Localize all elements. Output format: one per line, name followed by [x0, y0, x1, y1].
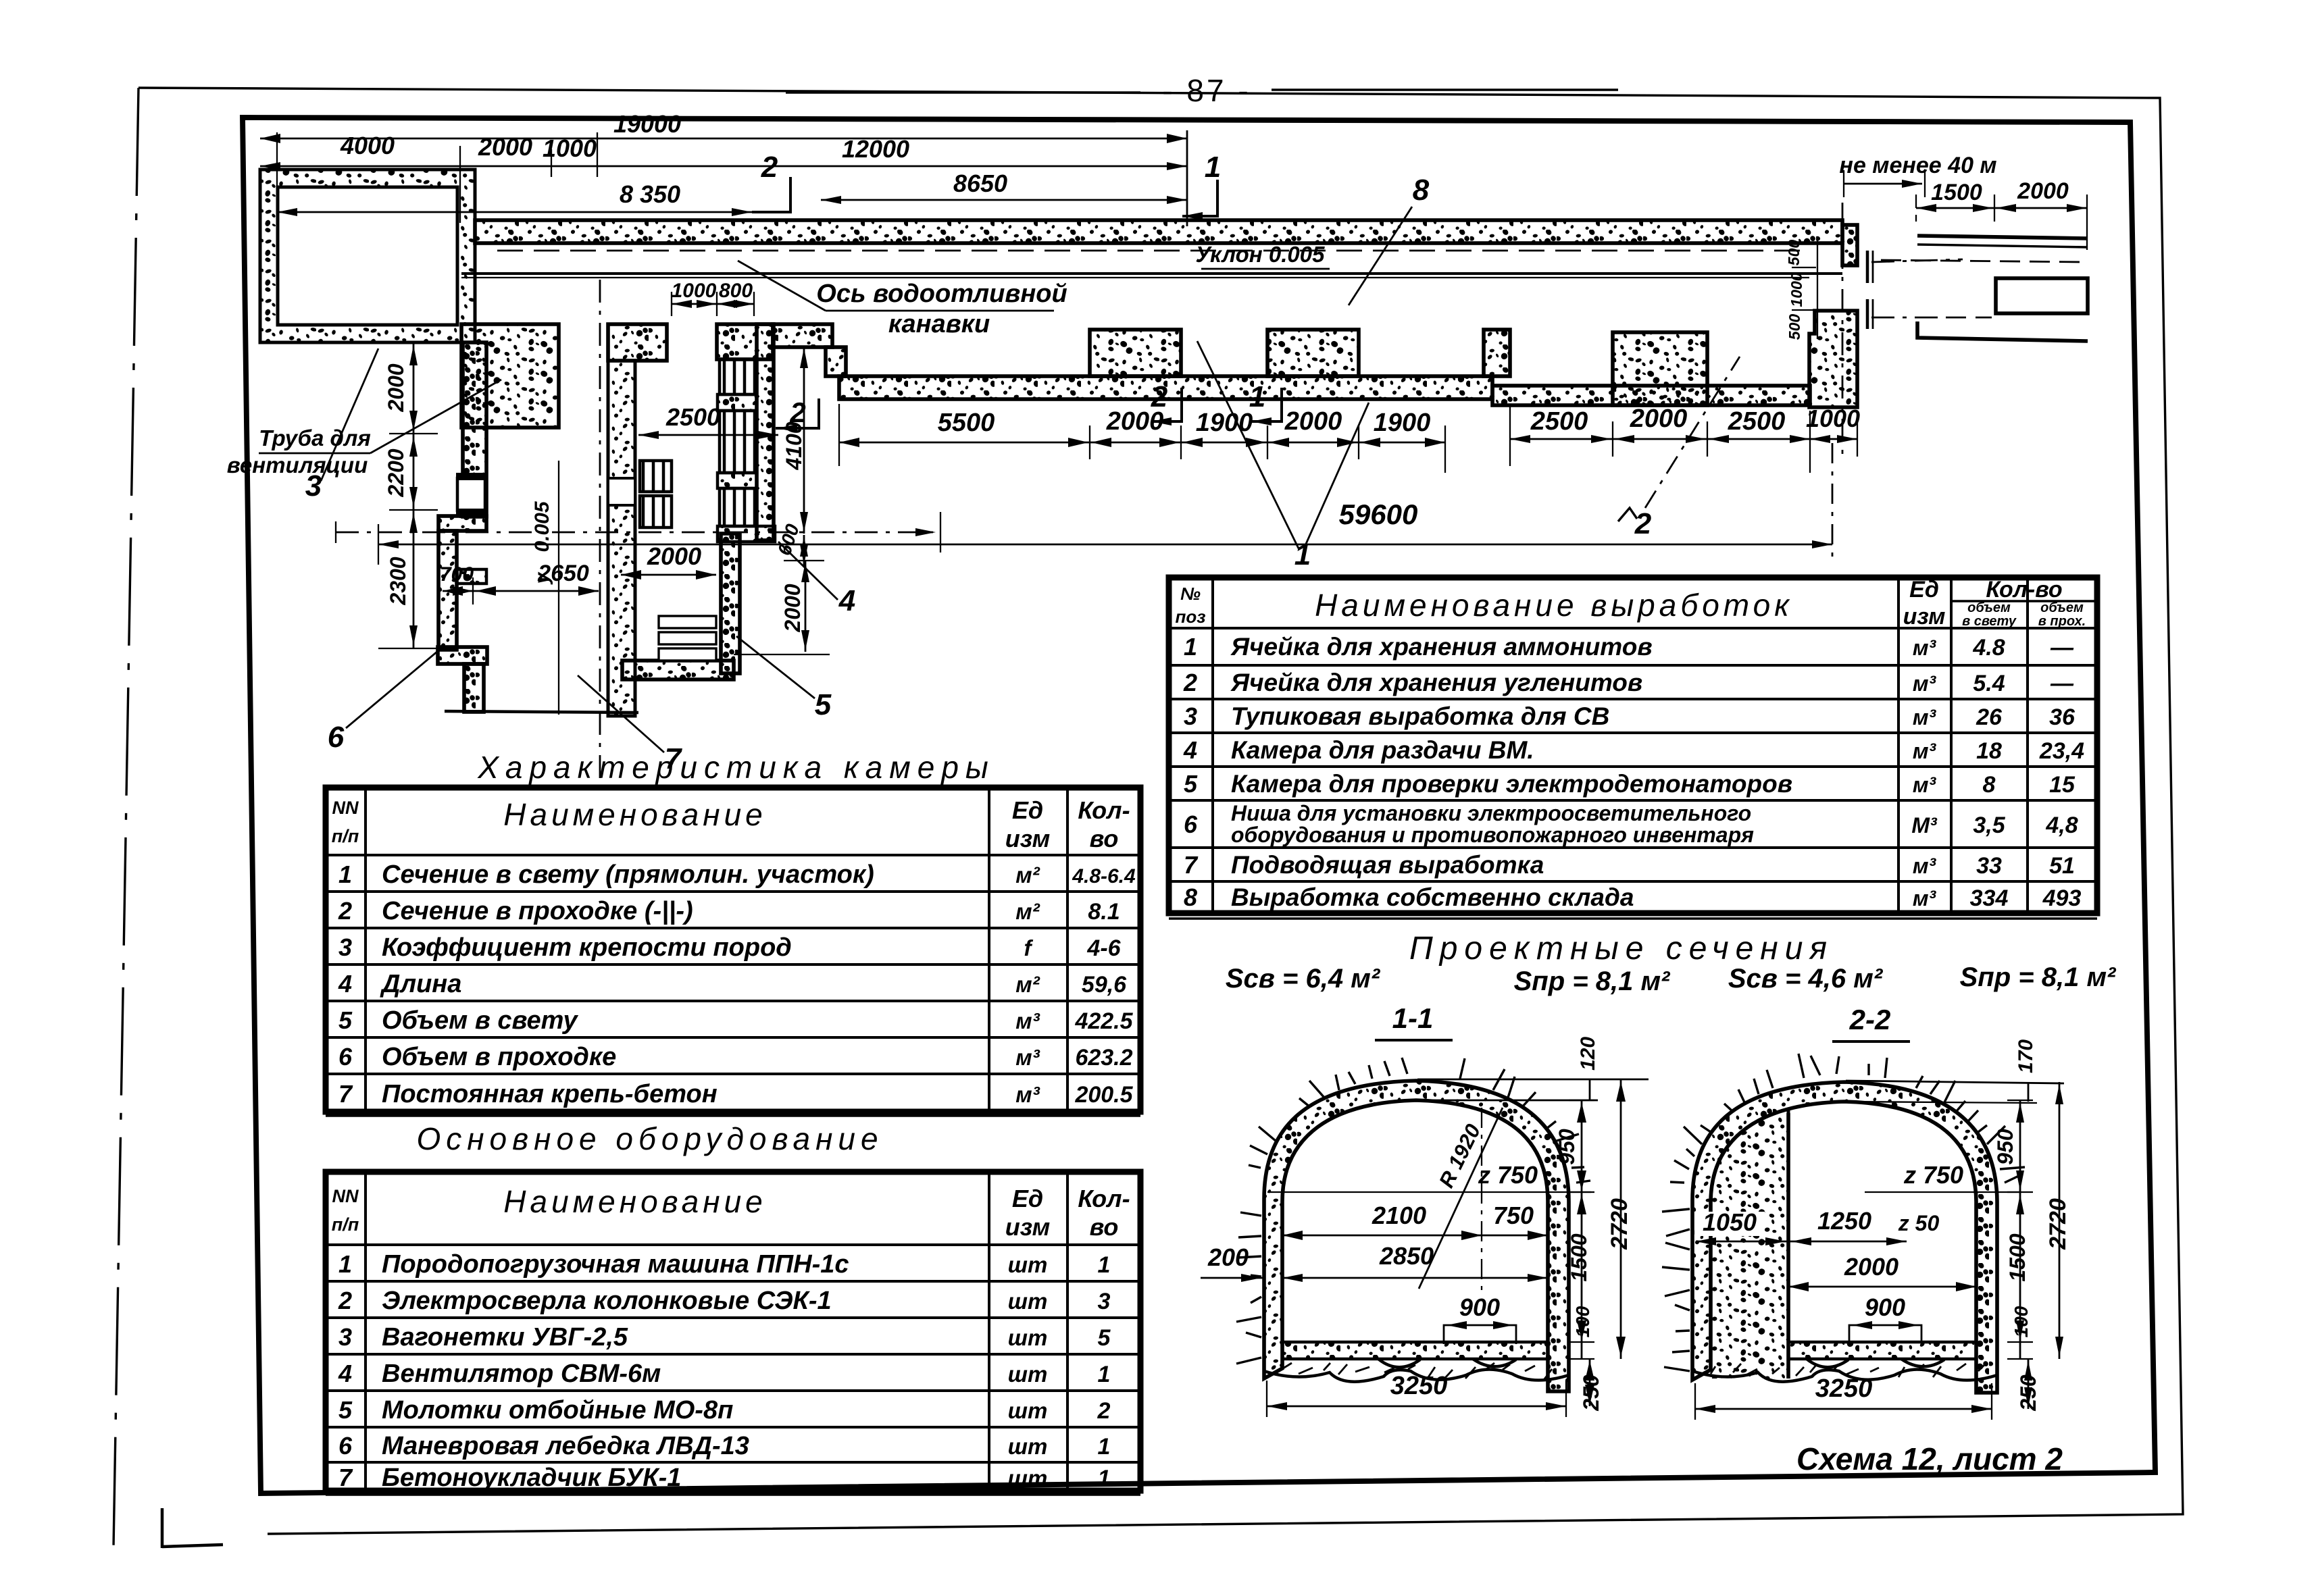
section 1-1 dim 900 bracket: [1444, 1325, 1516, 1344]
svg-text:z 750: z 750: [1903, 1161, 1963, 1189]
svg-text:м³: м³: [1015, 1008, 1040, 1033]
svg-text:33: 33: [1976, 853, 2002, 879]
svg-text:изм: изм: [1903, 604, 1946, 629]
svg-text:канавки: канавки: [888, 310, 990, 338]
svg-text:1500: 1500: [1567, 1233, 1591, 1281]
svg-text:Ед: Ед: [1012, 796, 1043, 824]
top dims 1000 800 drift opening: [672, 303, 717, 305]
svg-text:шт: шт: [1008, 1434, 1048, 1459]
svg-text:2850: 2850: [1379, 1242, 1434, 1270]
svg-text:4,8: 4,8: [2045, 813, 2078, 838]
svg-text:2000: 2000: [1106, 407, 1164, 436]
svg-text:7: 7: [338, 1080, 353, 1108]
svg-text:4000: 4000: [340, 132, 395, 159]
svg-text:м³: м³: [1913, 739, 1937, 763]
svg-text:Бетоноукладчик БУК-1: Бетоноукладчик БУК-1: [382, 1464, 681, 1492]
svg-text:4: 4: [338, 1360, 352, 1387]
svg-text:18: 18: [1976, 738, 2002, 764]
svg-text:Проектные сечения: Проектные сечения: [1409, 931, 1834, 967]
left wall small block 700: [457, 569, 486, 584]
svg-text:2650: 2650: [537, 561, 589, 586]
svg-text:4.8: 4.8: [1972, 635, 2005, 661]
svg-text:z 50: z 50: [1898, 1211, 1940, 1235]
svg-text:Кол-: Кол-: [1078, 796, 1130, 824]
svg-text:1: 1: [1184, 633, 1197, 661]
svg-text:п/п: п/п: [332, 826, 359, 846]
svg-text:п/п: п/п: [332, 1214, 359, 1235]
svg-text:Уклон 0.005: Уклон 0.005: [1195, 242, 1325, 267]
svg-text:шт: шт: [1008, 1362, 1048, 1387]
svg-text:Ед: Ед: [1012, 1185, 1043, 1212]
svg-text:Сечение в свету (прямолин. у: Сечение в свету (прямолин. участок): [382, 860, 874, 889]
table 2 grid: [326, 1243, 1140, 1246]
canal solid line 2: [461, 277, 1809, 278]
svg-text:Молотки отбойные МО-8п: Молотки отбойные МО-8п: [382, 1396, 733, 1424]
dimension row 4000 2000 1000 12000: [260, 165, 1187, 168]
svg-text:2-2: 2-2: [1849, 1004, 1891, 1035]
svg-text:- 87 -: - 87 -: [1162, 73, 1251, 108]
svg-text:200.5: 200.5: [1074, 1082, 1133, 1108]
svg-text:Подводящая выработка: Подводящая выработка: [1231, 851, 1544, 879]
svg-text:900: 900: [1865, 1293, 1905, 1321]
svg-text:500: 500: [1785, 240, 1803, 266]
svg-text:м³: м³: [1913, 636, 1937, 660]
svg-text:Схема 12, лист 2: Схема 12, лист 2: [1796, 1441, 2063, 1476]
svg-text:Кол-: Кол-: [1078, 1185, 1130, 1212]
svg-text:5: 5: [338, 1006, 353, 1034]
svg-text:422.5: 422.5: [1074, 1008, 1133, 1034]
svg-text:6: 6: [338, 1432, 353, 1460]
drift bottom cut line: [445, 711, 638, 713]
cell pillar block 2000 right section: [1613, 332, 1707, 405]
svg-text:12000: 12000: [842, 135, 909, 163]
south wall band right section lower level: [1492, 386, 1810, 405]
ladder inside drift upper: [640, 461, 672, 492]
svg-text:1: 1: [1098, 1252, 1111, 1278]
svg-text:Маневровая лебедка ЛВД-13: Маневровая лебедка ЛВД-13: [382, 1432, 749, 1460]
svg-text:6: 6: [338, 1043, 353, 1071]
dimension 19000: [260, 138, 1187, 140]
svg-text:Ниша для установки электро: Ниша для установки электроосветительного: [1231, 801, 1751, 825]
svg-text:1-1: 1-1: [1392, 1002, 1434, 1034]
detail inner box: [1996, 278, 2088, 313]
svg-text:1000: 1000: [1788, 272, 1805, 307]
svg-text:900: 900: [1459, 1293, 1500, 1321]
svg-text:не менее 40 м: не менее 40 м: [1839, 153, 1996, 178]
svg-text:5500: 5500: [938, 409, 995, 437]
section 2-2 dim 2000: [1788, 1286, 1976, 1288]
detail dim 1500 2000: [1916, 207, 2087, 209]
svg-text:2300: 2300: [386, 557, 410, 605]
wall stub right of drift opening: [717, 324, 773, 359]
svg-text:1050: 1050: [1703, 1208, 1757, 1236]
table 1 grid: [326, 854, 1140, 856]
svg-text:0.005: 0.005: [531, 500, 553, 552]
svg-text:поз: поз: [1175, 607, 1205, 627]
svg-text:2000: 2000: [1630, 405, 1688, 433]
svg-text:8 350: 8 350: [620, 180, 680, 208]
svg-text:1: 1: [1098, 1362, 1111, 1387]
svg-text:3: 3: [1184, 702, 1197, 730]
page number 87 rule right: [1272, 88, 1618, 91]
svg-text:2000: 2000: [478, 133, 532, 161]
section 1-1 under-floor ground waves: [1264, 1369, 1569, 1381]
svg-text:6: 6: [1184, 810, 1198, 838]
section 1-1 top level line 120: [1417, 1079, 1649, 1081]
svg-text:Sсв = 6,4 м²: Sсв = 6,4 м²: [1226, 964, 1381, 994]
svg-text:23,4: 23,4: [2039, 738, 2084, 764]
svg-text:2500: 2500: [1530, 407, 1588, 436]
section 2-2 right dim stack: [2019, 1100, 2021, 1359]
svg-text:2000: 2000: [780, 584, 805, 632]
svg-text:шт: шт: [1008, 1466, 1048, 1491]
svg-text:—: —: [2050, 671, 2074, 696]
svg-text:1: 1: [1205, 151, 1221, 184]
chamber 3 walls (plan top-left room): [260, 170, 475, 342]
svg-text:оборудования и противопожарн: оборудования и противопожарного инвентар…: [1231, 823, 1754, 847]
svg-text:Sсв = 4,6 м²: Sсв = 4,6 м²: [1728, 964, 1884, 994]
section 1-1 dim 2100 750: [1282, 1235, 1482, 1237]
svg-text:м³: м³: [1015, 1082, 1040, 1107]
svg-text:5.4: 5.4: [1973, 671, 2005, 696]
svg-text:2: 2: [1097, 1398, 1111, 1424]
svg-text:2000: 2000: [384, 363, 408, 412]
svg-text:15: 15: [2049, 772, 2076, 798]
svg-text:Ячейка для хранения аммонит: Ячейка для хранения аммонитов: [1230, 633, 1653, 661]
detail top wall line: [1917, 236, 2088, 238]
svg-text:59600: 59600: [1339, 498, 1418, 530]
section 1-1 radius R1920: [1419, 1108, 1503, 1289]
drift right wall strip: [757, 324, 774, 540]
svg-text:1250: 1250: [1817, 1207, 1871, 1235]
section 1-1 dim 3250: [1267, 1406, 1566, 1408]
svg-text:м³: м³: [1913, 705, 1937, 729]
svg-text:Породопогрузочная машина ПП: Породопогрузочная машина ППН-1с: [382, 1250, 849, 1279]
svg-text:М³: М³: [1911, 813, 1938, 838]
svg-text:Ед: Ед: [1909, 577, 1939, 602]
svg-text:2720: 2720: [2045, 1198, 2071, 1250]
svg-text:623.2: 623.2: [1075, 1045, 1132, 1071]
svg-text:170: 170: [2015, 1039, 2037, 1073]
svg-text:950: 950: [1993, 1129, 2017, 1165]
svg-text:5: 5: [815, 688, 832, 721]
svg-text:4: 4: [838, 584, 855, 617]
svg-text:3,5: 3,5: [1973, 813, 2005, 838]
section 2-2 left side hatch: [1662, 1209, 1690, 1371]
svg-text:2500: 2500: [665, 403, 720, 431]
section 1-1 floor band: [1282, 1342, 1548, 1359]
svg-text:Ось водоотливной: Ось водоотливной: [816, 280, 1067, 308]
svg-text:1: 1: [1098, 1434, 1111, 1460]
left wall bottom block: [438, 647, 487, 664]
exit centerline upper: [1871, 259, 1963, 262]
svg-text:2200: 2200: [384, 448, 408, 497]
svg-text:7: 7: [1184, 851, 1199, 879]
right end lower wall L-shape: [1809, 311, 1857, 407]
svg-text:Труба для: Труба для: [259, 426, 371, 451]
big pillar block right of chamber 3: [461, 324, 559, 428]
svg-text:Наименование выработок: Наименование выработок: [1315, 588, 1793, 623]
svg-text:4: 4: [338, 970, 352, 998]
section 2-2 dim 1050 1250 z50: [1696, 1241, 1788, 1243]
svg-text:шт: шт: [1008, 1289, 1048, 1314]
left wall strip below chamber 3: [463, 342, 486, 517]
svg-text:3250: 3250: [1815, 1374, 1873, 1403]
drift canal axis dash-dot: [599, 280, 601, 794]
svg-text:4.8-6.4: 4.8-6.4: [1072, 865, 1136, 887]
svg-text:51: 51: [2049, 853, 2075, 879]
svg-text:5: 5: [1184, 770, 1198, 798]
ventilation pipe niche white box: [457, 478, 485, 511]
svg-text:2000: 2000: [2017, 178, 2069, 204]
section 2-2 spring line and z750: [1865, 1191, 2020, 1193]
svg-text:3: 3: [1098, 1289, 1111, 1314]
south wall step down segment: [826, 347, 846, 376]
main corridor top wall band: [475, 220, 1842, 243]
svg-text:59,6: 59,6: [1082, 972, 1127, 998]
svg-text:1: 1: [338, 860, 352, 888]
svg-text:2100: 2100: [1372, 1202, 1426, 1229]
svg-text:700: 700: [440, 563, 474, 586]
dimension 2000 chamber4 width: [621, 574, 716, 576]
dimension row 5500 2000 1900 2000 1900: [839, 442, 1445, 444]
left wall lower strip: [438, 531, 457, 650]
svg-text:2000: 2000: [1284, 407, 1342, 436]
main thick frame: [243, 118, 2155, 1493]
svg-text:шт: шт: [1008, 1252, 1048, 1277]
svg-text:Постоянная крепь-бетон: Постоянная крепь-бетон: [382, 1080, 718, 1108]
svg-text:36: 36: [2049, 704, 2076, 730]
section 2-2 dim 900 bracket: [1849, 1325, 1921, 1344]
svg-text:493: 493: [2042, 885, 2082, 911]
svg-text:5: 5: [338, 1396, 353, 1424]
svg-text:м³: м³: [1913, 671, 1937, 696]
svg-text:шт: шт: [1008, 1325, 1048, 1350]
svg-text:2: 2: [1183, 669, 1197, 696]
svg-text:Sпр = 8,1 м²: Sпр = 8,1 м²: [1514, 967, 1671, 996]
svg-text:м²: м²: [1015, 972, 1040, 997]
svg-text:Вагонетки УВГ-2,5: Вагонетки УВГ-2,5: [382, 1323, 628, 1352]
ladder hatch rect 2: [720, 411, 757, 473]
svg-text:Наименование: Наименование: [503, 797, 766, 832]
stipple bottom bar of ladder chamber: [718, 526, 775, 542]
svg-text:4-6: 4-6: [1086, 935, 1121, 961]
section 1-1 spring line: [1267, 1191, 1591, 1193]
canal dashed edge line: [497, 250, 1809, 252]
svg-text:м³: м³: [1913, 773, 1937, 797]
section 1-1 arch lining ring: [1264, 1081, 1569, 1391]
svg-text:26: 26: [1976, 704, 2003, 730]
cell pillar block 2000 no.1: [1090, 330, 1181, 376]
svg-text:во: во: [1090, 1213, 1119, 1241]
svg-text:Камера для раздачи ВМ.: Камера для раздачи ВМ.: [1231, 736, 1534, 764]
svg-text:2000: 2000: [1844, 1253, 1898, 1281]
svg-text:в свету: в свету: [1962, 614, 2017, 629]
svg-text:Ячейка для хранения угленит: Ячейка для хранения угленитов: [1230, 669, 1642, 696]
svg-text:Электросверла колонковые СЭ: Электросверла колонковые СЭК-1: [382, 1287, 832, 1315]
dimension 59600: [378, 544, 1832, 546]
svg-text:Sпр = 8,1 м²: Sпр = 8,1 м²: [1960, 962, 2117, 992]
svg-text:Характеристика камеры: Характеристика камеры: [477, 750, 995, 785]
svg-text:4: 4: [1183, 736, 1197, 764]
stipple bar between ladders 2: [718, 473, 757, 488]
svg-text:вентиляции: вентиляции: [227, 453, 368, 478]
chamber 4 bottom wall band: [622, 661, 734, 679]
svg-text:8: 8: [1184, 883, 1197, 911]
svg-text:2720: 2720: [1607, 1198, 1632, 1250]
svg-text:Тупиковая выработка для СВ: Тупиковая выработка для СВ: [1231, 702, 1609, 730]
drift left wall lower projection lines: [607, 712, 610, 716]
vertical axis dash line right end: [1842, 203, 1844, 457]
section 2-2 arch lining ring: [1692, 1082, 1997, 1393]
ladder hatch rect 1: [720, 359, 757, 394]
page number 87 rule left: [786, 91, 1140, 93]
section 2-2 top level line 170: [1846, 1081, 2064, 1083]
section 2-2 dim 170 top: [2028, 1082, 2030, 1102]
svg-text:Сечение в проходке (-||-): Сечение в проходке (-||-): [382, 897, 693, 925]
dimension 700 2650: [443, 590, 599, 592]
svg-text:100: 100: [1572, 1306, 1593, 1337]
svg-text:2: 2: [761, 151, 778, 184]
svg-text:1: 1: [338, 1250, 352, 1278]
svg-text:объем: объем: [1967, 600, 2011, 615]
svg-text:м³: м³: [1913, 854, 1937, 878]
svg-text:м³: м³: [1913, 886, 1937, 910]
detail bottom wall line: [1917, 321, 2088, 341]
frame corner mark bottom-left: [162, 1508, 223, 1548]
svg-text:Камера для проверки элект: Камера для проверки электродетонаторов: [1231, 770, 1792, 798]
svg-text:во: во: [1090, 825, 1119, 852]
cell pillar block 2000 no.2: [1267, 330, 1359, 376]
svg-text:1900: 1900: [1374, 409, 1431, 437]
detail 40m dim line: [1844, 183, 1922, 185]
section 2-2 under-floor ground waves: [1692, 1369, 1997, 1381]
svg-text:2: 2: [1634, 507, 1652, 540]
drift extension line vertical: [558, 461, 559, 715]
section 1-1 exterior rock hatch: [1249, 1058, 1590, 1183]
svg-text:z 750: z 750: [1478, 1161, 1538, 1189]
svg-text:334: 334: [1970, 885, 2009, 911]
svg-text:№: №: [1180, 584, 1201, 604]
section 2-2 exterior rock hatch: [1670, 1054, 2025, 1183]
steps in chamber 4: [659, 616, 716, 628]
chamber 4 bottom level line: [734, 654, 830, 655]
section 2-2 dim 2720: [2059, 1082, 2061, 1359]
svg-text:2: 2: [338, 1287, 352, 1314]
corridor top-right end wall block: [1842, 225, 1857, 265]
drift left wall with niche: [608, 361, 635, 716]
svg-text:1900: 1900: [1196, 409, 1253, 437]
svg-text:м³: м³: [1015, 1045, 1040, 1070]
south wall band 5500 stretch and cells row: [839, 376, 1492, 399]
svg-text:1: 1: [1098, 1466, 1111, 1491]
svg-text:1000: 1000: [1806, 405, 1860, 432]
svg-text:Основное оборудование: Основное оборудование: [416, 1121, 883, 1156]
section 2-2 floor band: [1788, 1342, 1976, 1359]
svg-text:3: 3: [338, 1323, 352, 1351]
svg-text:2: 2: [789, 396, 805, 428]
svg-text:3250: 3250: [1390, 1372, 1448, 1400]
section 1-1 right dim stack: [1581, 1100, 1583, 1359]
table 3 grid: [1169, 627, 2097, 629]
svg-text:шт: шт: [1008, 1398, 1048, 1423]
svg-text:м²: м²: [1015, 899, 1040, 924]
svg-text:объем: объем: [2040, 600, 2084, 615]
right vertical dim 2000 chamber4: [805, 561, 807, 652]
svg-text:Объем в свету: Объем в свету: [382, 1006, 578, 1035]
dimension 8350: [277, 211, 752, 213]
left wall step band: [438, 516, 486, 531]
svg-text:950: 950: [1555, 1129, 1579, 1165]
dimension 2500 drift: [638, 434, 778, 436]
south wall band segment right of drift: [773, 324, 832, 347]
pillar left of drift opening: [608, 324, 667, 361]
svg-text:NN: NN: [332, 1186, 359, 1206]
right vertical dim 600: [803, 535, 805, 566]
svg-text:8: 8: [1413, 174, 1430, 207]
svg-text:Наименование: Наименование: [503, 1184, 766, 1219]
svg-text:100: 100: [2011, 1306, 2032, 1337]
svg-text:2500: 2500: [1728, 407, 1786, 436]
svg-text:6: 6: [328, 721, 345, 754]
ladder hatch rect 3: [720, 488, 757, 526]
exit centerline lower: [1871, 317, 1942, 319]
svg-text:Коэффициент крепости пород: Коэффициент крепости пород: [382, 933, 792, 962]
svg-text:8.1: 8.1: [1088, 899, 1120, 925]
svg-text:изм: изм: [1005, 825, 1051, 852]
left vertical dim stack 2000 2200 2300: [413, 342, 415, 648]
section 1-1 dim 2850 and 200: [1282, 1277, 1548, 1279]
svg-text:—: —: [2050, 635, 2074, 661]
svg-text:8650: 8650: [953, 170, 1007, 197]
svg-text:750: 750: [1493, 1202, 1534, 1229]
svg-text:2000: 2000: [647, 542, 701, 570]
svg-text:1500: 1500: [1931, 180, 1982, 205]
svg-text:800: 800: [719, 280, 753, 302]
section 1-1 dim 120 top: [1589, 1079, 1591, 1100]
section 1-1 left wall hatch: [1236, 1212, 1261, 1364]
canal solid line 1: [461, 272, 1842, 275]
horizontal axis dash-dot through drift complex: [336, 532, 940, 534]
svg-text:7: 7: [338, 1464, 353, 1491]
svg-text:м²: м²: [1015, 863, 1040, 887]
ladder inside drift lower: [640, 496, 672, 527]
svg-text:5: 5: [1098, 1325, 1111, 1351]
svg-text:в прох.: в прох.: [2038, 614, 2086, 629]
svg-text:1500: 1500: [2005, 1233, 2030, 1281]
right vertical dim 4100: [803, 346, 805, 534]
detail dashed centerlines: [1881, 260, 2085, 262]
svg-text:500: 500: [1786, 314, 1803, 340]
svg-text:1000: 1000: [672, 280, 717, 302]
svg-text:3: 3: [338, 933, 352, 961]
svg-text:Вентилятор СВМ-6м: Вентилятор СВМ-6м: [382, 1360, 661, 1388]
left wall bottom strip: [464, 664, 484, 712]
svg-text:200: 200: [1207, 1243, 1249, 1271]
extension lines top dims: [276, 132, 278, 216]
stipple bar between ladders 1: [718, 394, 757, 411]
section 1-1 dim 2720: [1620, 1079, 1622, 1359]
svg-text:Объем в проходке: Объем в проходке: [382, 1043, 616, 1071]
svg-text:изм: изм: [1005, 1213, 1051, 1241]
svg-text:2: 2: [338, 897, 352, 925]
svg-text:Кол-во: Кол-во: [1986, 577, 2062, 602]
section 1-1 track axis centerline: [1481, 1108, 1482, 1291]
svg-text:19000: 19000: [613, 110, 681, 138]
svg-text:Выработка собственно склад: Выработка собственно склада: [1231, 883, 1634, 911]
svg-text:120: 120: [1577, 1037, 1599, 1071]
svg-text:8: 8: [1983, 772, 1996, 798]
